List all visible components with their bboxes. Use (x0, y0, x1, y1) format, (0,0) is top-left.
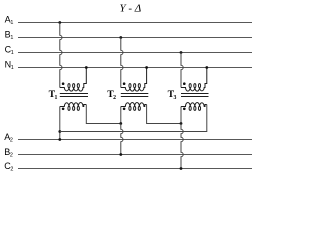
inductor T3 secondary winding crossover loop (198, 106, 200, 110)
wire C2 phase line (18, 168, 252, 170)
inductor T1 primary winding crossover loop (73, 84, 75, 88)
inductor T1 secondary winding crossover loop (68, 106, 70, 110)
transformer T1 core line 2 (60, 96, 88, 98)
inductor T2 primary winding crossover loop (134, 84, 136, 88)
node T1 primary polarity dot (62, 82, 65, 85)
svg-text:N1: N1 (5, 60, 14, 71)
inductor T3 secondary winding (181, 103, 207, 107)
svg-text:C2: C2 (4, 161, 13, 172)
node junction on B2 (dot) (119, 153, 122, 156)
wire T2 secondary right lead to T3 secondary left (delta link) (147, 105, 181, 124)
inductor T2 secondary winding crossover loop (129, 106, 131, 110)
inductor T3 primary winding crossover loop (198, 84, 200, 88)
transformer T3 core line 1 (181, 93, 209, 95)
circuit schematic: Y-Delta three-phase transformer bank (0, 0, 260, 180)
node T2 primary left junction on phase (dot) (119, 36, 122, 39)
inductor T1 secondary winding crossover loop (73, 106, 75, 110)
node T1 primary right junction on neutral (dot) (85, 66, 88, 69)
wire B2 phase line (18, 154, 252, 156)
wire T3 secondary left lead (180, 107, 182, 124)
svg-text:T1: T1 (49, 89, 58, 101)
node junction on C2 (dot) (180, 167, 183, 170)
wire T1 primary left lead (hops over lower phase lines) (60, 23, 62, 88)
inductor T1 primary winding crossover loop (77, 84, 79, 88)
node junction on A2 (dot) (58, 138, 61, 141)
inductor T1 primary winding crossover loop (68, 84, 70, 88)
transformer T3 core line 2 (181, 96, 209, 98)
inductor T2 secondary winding crossover loop (138, 106, 140, 110)
svg-text:B1: B1 (5, 29, 14, 40)
inductor T2 primary winding (121, 68, 147, 92)
inductor T3 secondary winding crossover loop (194, 106, 196, 110)
node junction T1-left / delta rail (dot) (58, 130, 61, 133)
wire C2 tap (hops over delta rail, A2, B2) (181, 124, 183, 169)
inductor T2 primary winding crossover loop (138, 84, 140, 88)
node T2 primary right junction on neutral (dot) (145, 66, 148, 69)
inductor T3 primary winding crossover loop (189, 84, 191, 88)
inductor T1 secondary winding (60, 103, 87, 107)
wire T3 primary left lead (hops over lower phase lines) (181, 53, 183, 88)
inductor T1 secondary winding crossover loop (77, 106, 79, 110)
node T3 secondary polarity dot (183, 108, 186, 111)
transformer T2 core line 2 (121, 96, 149, 98)
wire T1 secondary right lead to T2 secondary left (delta link) (86, 105, 121, 124)
node junction T2R-T3L-C2tap (dot) (180, 122, 183, 125)
wire N1 neutral line (18, 67, 252, 69)
svg-text:Y - Δ: Y - Δ (120, 3, 142, 15)
wire T2 primary left lead (hops over lower phase lines) (121, 38, 123, 88)
node T3 primary polarity dot (183, 82, 186, 85)
inductor T2 secondary winding (121, 102, 147, 106)
svg-text:T2: T2 (107, 89, 116, 101)
wire C1 phase line (18, 52, 252, 54)
svg-text:B2: B2 (4, 147, 13, 158)
wire T3 secondary right lead to T1 left (delta closing rail) (60, 105, 207, 132)
wire T2 secondary left lead (120, 107, 122, 124)
node T1 primary left junction on phase (dot) (58, 21, 61, 24)
wire B2 tap (hops over delta rail and A2) (121, 124, 123, 155)
node T1 secondary polarity dot (62, 108, 65, 111)
inductor T3 primary winding crossover loop (194, 84, 196, 88)
wire B1 phase line (18, 37, 252, 39)
wire A1 phase line (18, 22, 252, 24)
inductor T3 primary winding (181, 68, 207, 92)
inductor T2 secondary winding crossover loop (134, 106, 136, 110)
node T3 primary right junction on neutral (dot) (205, 66, 208, 69)
inductor T3 secondary winding crossover loop (189, 106, 191, 110)
transformer T1 core line 1 (60, 93, 88, 95)
wire T1 secondary left lead down to A2 (59, 107, 61, 140)
svg-text:A2: A2 (4, 132, 13, 143)
node T2 primary polarity dot (123, 82, 126, 85)
node T3 primary left junction on phase (dot) (180, 51, 183, 54)
svg-text:A1: A1 (5, 14, 14, 25)
wire A2 phase line (18, 139, 252, 141)
inductor T2 primary winding crossover loop (129, 84, 131, 88)
node junction T1R-T2L-B2tap (dot) (119, 122, 122, 125)
svg-text:C1: C1 (5, 44, 14, 55)
transformer T2 core line 1 (121, 93, 149, 95)
inductor T1 primary winding (60, 68, 87, 92)
node T2 secondary polarity dot (123, 108, 126, 111)
svg-text:T3: T3 (168, 89, 177, 101)
